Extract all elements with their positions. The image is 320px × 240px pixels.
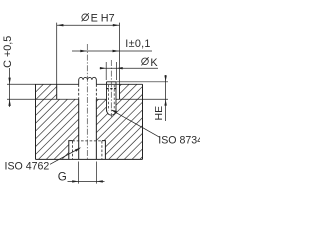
arrowhead E right <box>113 24 120 26</box>
dowel pin hidden edges inside hole K <box>108 85 114 111</box>
arrowhead C top <box>8 78 10 85</box>
arrowhead I left <box>80 50 87 52</box>
svg-text:C +0,5: C +0,5 <box>2 36 14 68</box>
screw shank break line (wavy cap) <box>79 77 97 84</box>
arrowhead HE bottom <box>164 99 166 105</box>
dimension HE extension line top <box>116 81 168 83</box>
section hatching of plate <box>0 80 227 162</box>
arrowhead HE top <box>164 75 166 81</box>
screw head ISO 4762 hidden outline <box>72 140 102 142</box>
svg-text:ISO 4762: ISO 4762 <box>5 161 50 173</box>
svg-text:ISO 8734: ISO 8734 <box>158 134 200 146</box>
svg-text:E H7: E H7 <box>91 13 115 25</box>
screw clearance hole walls <box>79 99 97 159</box>
arrowhead C bottom <box>8 99 10 106</box>
svg-text:HE: HE <box>153 106 165 121</box>
dimension G extension lines <box>79 162 97 184</box>
screw head counterbore outline <box>69 141 106 160</box>
svg-text:I±0,1: I±0,1 <box>125 38 150 50</box>
label diameter K <box>141 57 158 69</box>
dimension C extension line top <box>7 83 36 85</box>
arrowhead I right <box>113 50 120 52</box>
arrowhead E left <box>57 24 64 26</box>
dimension C +0,5 line <box>9 68 11 107</box>
dimension HE line <box>165 75 167 121</box>
pin hole rounded bottom <box>107 110 117 116</box>
leader arrowhead ISO 4762 <box>75 147 81 151</box>
arrowhead K right <box>116 67 122 69</box>
dowel pin ISO 8734 top and side walls <box>107 81 117 83</box>
dimension I plus/minus 0,1 line <box>72 50 152 52</box>
fit bore E H7 side walls <box>57 84 120 99</box>
screw shank hidden edges through fit bore <box>79 84 97 99</box>
counterbore floor line with C and HE extension line <box>7 98 168 100</box>
plate left and right faces <box>36 84 143 159</box>
svg-text:K: K <box>150 57 158 69</box>
dimension G line <box>68 180 105 182</box>
leader line ISO 4762 <box>50 148 80 164</box>
dimension K line <box>100 67 158 69</box>
plate top surface <box>36 83 143 85</box>
dimension K extension lines <box>106 62 116 80</box>
arrowhead G left <box>72 180 78 182</box>
dowel pin side walls / hole K walls <box>107 82 117 112</box>
plate bottom face <box>36 158 143 160</box>
label diameter E H7 <box>82 13 115 25</box>
leader line ISO 8734 <box>112 110 160 137</box>
leader arrowhead ISO 8734 <box>111 109 118 113</box>
svg-text:G: G <box>58 170 67 183</box>
centerline pin axis <box>110 60 112 117</box>
arrowhead K left <box>100 67 106 69</box>
dimension E H7 line <box>57 24 120 26</box>
dimension E H7 extension lines <box>57 23 120 85</box>
arrowhead G right <box>97 180 103 182</box>
centerline screw axis <box>86 44 88 160</box>
